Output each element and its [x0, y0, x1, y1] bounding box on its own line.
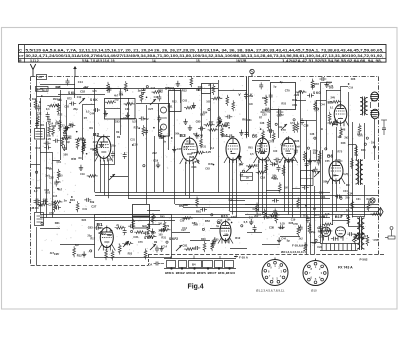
aerial input box label: [37, 88, 44, 91]
svg-text:R53: R53: [273, 163, 278, 166]
value label: [218, 117, 222, 120]
resistor: [53, 201, 56, 212]
svg-text:C81: C81: [182, 243, 187, 247]
capacitor: [225, 115, 232, 119]
svg-text:100: 100: [273, 150, 278, 153]
relay label B4 on strip: [192, 262, 196, 266]
transformer winding (primary): [357, 218, 360, 249]
svg-text:C70: C70: [138, 241, 143, 244]
value label: [259, 117, 263, 120]
wire v38: [278, 109, 280, 139]
value label: [84, 117, 88, 120]
svg-text:C38: C38: [260, 122, 265, 125]
ground symbol: [213, 237, 217, 243]
svg-text:C31: C31: [94, 154, 99, 157]
value label: [346, 183, 350, 187]
junction node: [39, 101, 41, 103]
capacitor: [84, 198, 91, 202]
svg-text:C44: C44: [191, 165, 196, 169]
wire v7: [66, 100, 68, 150]
wire h16: [296, 100, 307, 102]
svg-text:0,25: 0,25: [206, 150, 212, 154]
ground symbol: [277, 237, 281, 243]
resistor: [267, 119, 270, 130]
resistor: [262, 129, 265, 140]
capacitor: [35, 121, 39, 128]
svg-text:8,2: 8,2: [75, 243, 79, 247]
bus wire left return: [40, 214, 230, 216]
wire h5: [105, 108, 120, 110]
wire v23: [180, 88, 182, 103]
transformer winding (primary): [356, 160, 359, 184]
svg-text:R31: R31: [196, 89, 201, 92]
value label: [80, 173, 85, 176]
value label: [198, 86, 203, 89]
svg-text:3n9: 3n9: [296, 145, 301, 148]
svg-text:4k7: 4k7: [364, 235, 369, 238]
wire v20: [163, 136, 165, 192]
tube B7 (rectifier): [321, 227, 330, 240]
resistor: [347, 215, 350, 226]
svg-text:R53: R53: [46, 191, 51, 194]
value label: [172, 100, 177, 103]
value label: [46, 166, 51, 170]
value label: [82, 219, 87, 222]
svg-text:50k: 50k: [323, 179, 328, 183]
resistor: [203, 241, 206, 252]
bus wire AVC rail c: [128, 198, 330, 200]
resistor: [366, 235, 369, 246]
terminal strip rail top: [164, 258, 236, 260]
svg-text:C38: C38: [269, 226, 274, 230]
transformer winding (primary): [360, 98, 363, 115]
svg-text:C19: C19: [291, 218, 296, 221]
capacitor: [46, 112, 50, 119]
resistor: [184, 248, 195, 251]
svg-text:C27: C27: [48, 203, 53, 207]
svg-text:5p: 5p: [313, 160, 316, 163]
resistor: [350, 158, 353, 169]
svg-text:C52: C52: [358, 224, 363, 227]
wire h1: [58, 94, 105, 96]
wire v42: [300, 90, 302, 218]
ground symbol: [156, 162, 160, 168]
svg-text:C44: C44: [90, 112, 95, 115]
table row separator 1: [18, 52, 386, 54]
volume control box inner line: [240, 176, 252, 178]
value label: [148, 236, 153, 239]
terminal circle: [373, 146, 375, 148]
wire v29: [218, 80, 220, 192]
resistor: [232, 100, 235, 111]
switch contact arrow 6: [352, 235, 358, 241]
value label: [139, 95, 143, 99]
value label: [278, 126, 283, 129]
wire v1: [36, 140, 38, 212]
svg-text:C95: C95: [196, 120, 201, 124]
trimmer box: [202, 84, 211, 94]
wire v11: [100, 160, 102, 192]
switch label S KR: [313, 91, 321, 95]
svg-text:1n5: 1n5: [249, 103, 254, 106]
svg-text:R12: R12: [182, 88, 187, 92]
junction node: [71, 196, 73, 198]
resistor: [76, 201, 79, 212]
tube B5a: [280, 136, 298, 163]
ground symbol: [79, 165, 83, 171]
terminal circle: [131, 230, 133, 232]
value label: [37, 112, 42, 116]
resistor: [295, 91, 306, 94]
value label: [319, 192, 324, 195]
svg-text:B4: B4: [192, 262, 196, 266]
svg-text:C63: C63: [224, 239, 229, 243]
capacitor: [302, 186, 309, 190]
value label: [57, 161, 62, 164]
value label: [35, 186, 40, 190]
value label: [186, 140, 191, 143]
capacitor: [41, 199, 48, 203]
value label: [175, 133, 180, 136]
value label: [130, 139, 135, 142]
capacitor: [276, 110, 283, 114]
svg-text:C44: C44: [249, 217, 254, 220]
value label: [49, 176, 54, 180]
value label: [80, 90, 85, 94]
junction node: [231, 222, 233, 224]
switch contact arrow 0: [79, 98, 85, 104]
wire v16: [128, 98, 130, 198]
svg-text:3n9: 3n9: [158, 230, 163, 233]
capacitor: [347, 232, 354, 236]
wire v3: [40, 98, 42, 214]
resistor: [105, 101, 116, 104]
svg-text:R45: R45: [292, 98, 297, 102]
svg-text:1M: 1M: [166, 87, 169, 90]
value label: [249, 217, 254, 220]
value label: [248, 146, 253, 149]
value label: [152, 151, 157, 155]
value label: [211, 147, 215, 150]
capacitor: [307, 93, 314, 97]
svg-text:C63: C63: [205, 168, 210, 171]
svg-text:C52: C52: [80, 90, 85, 94]
ground symbol: [172, 146, 176, 152]
oscillator section box B1: [95, 215, 172, 258]
svg-text:25p: 25p: [111, 145, 116, 148]
tube socket diagram B10: [303, 259, 328, 286]
switch contact arrow 1: [109, 174, 115, 180]
wire h30: [147, 224, 160, 226]
capacitor: [159, 135, 166, 139]
wire h11: [181, 88, 202, 90]
terminal circle: [275, 123, 277, 125]
lamp group label: [281, 250, 304, 254]
svg-text:R12: R12: [235, 236, 240, 240]
wire v34: [258, 160, 260, 212]
capacitor: [143, 231, 150, 235]
svg-text:C27: C27: [91, 205, 96, 209]
wire v21: [168, 112, 170, 150]
value label: [101, 233, 106, 236]
svg-text:0,25: 0,25: [328, 85, 333, 88]
value label: [93, 141, 98, 144]
ground symbol: [195, 132, 199, 138]
svg-text:R72: R72: [67, 98, 72, 101]
svg-text:C52: C52: [123, 117, 128, 120]
capacitor: [227, 134, 234, 138]
value label: [91, 205, 96, 209]
value label: [142, 224, 147, 228]
value label: [254, 164, 259, 167]
value label: [89, 126, 93, 130]
svg-text:C19: C19: [80, 173, 85, 176]
tube B4: [224, 136, 242, 163]
capacitor CA: [154, 262, 161, 266]
svg-text:C31: C31: [82, 208, 87, 211]
svg-text:C38: C38: [304, 123, 309, 127]
wire v0: [36, 77, 38, 129]
resistor: [211, 97, 222, 100]
junction node: [321, 128, 323, 130]
resistor: [282, 165, 285, 176]
chassis boundary dashed left rail: [30, 77, 32, 266]
value label: [224, 124, 228, 128]
value label: [133, 143, 138, 146]
capacitor: [54, 206, 61, 210]
value label: [86, 111, 90, 114]
svg-text:C: C: [19, 48, 22, 53]
svg-text:C48: C48: [38, 204, 43, 208]
value label: [182, 100, 187, 103]
svg-text:30,32,4,71,24/100/13,31A/100,2: 30,32,4,71,24/100/13,31A/100,27/64/14,49…: [26, 54, 384, 58]
value label: [304, 244, 309, 247]
value label: [272, 176, 277, 179]
value label: [48, 203, 53, 207]
value label: [193, 223, 198, 227]
resistor: [105, 249, 108, 260]
svg-text:FX 743 A: FX 743 A: [338, 265, 353, 269]
value label: [201, 145, 206, 148]
svg-text:8,2: 8,2: [34, 190, 38, 193]
resistor: [132, 219, 135, 230]
svg-text:1n5: 1n5: [319, 216, 324, 219]
value label: [273, 150, 278, 153]
svg-text:0,1: 0,1: [216, 122, 220, 125]
capacitor: [93, 108, 100, 112]
capacitor: [157, 94, 161, 101]
pilot lamp circle: [370, 198, 375, 203]
value label: [325, 212, 330, 216]
value label: [180, 220, 185, 223]
svg-text:R17: R17: [209, 121, 214, 124]
ground symbol: [324, 82, 328, 88]
wire h12: [211, 83, 219, 85]
value label: [229, 199, 233, 202]
resistor: [58, 120, 61, 131]
capacitor: [200, 208, 207, 212]
resistor: [142, 125, 145, 136]
wire v33: [246, 77, 248, 139]
ground symbol: [188, 125, 192, 131]
ground symbol: [183, 119, 187, 125]
svg-text:C55: C55: [325, 160, 330, 163]
value label: [58, 99, 63, 102]
tube B2 label: [93, 132, 99, 138]
ground symbol: [62, 145, 66, 151]
switch unit box upper: [133, 205, 150, 217]
value label: [290, 122, 294, 125]
value label: [344, 137, 349, 140]
value label: [304, 123, 309, 127]
value label: [262, 108, 267, 112]
capacitor: [274, 158, 281, 162]
dial lamp symbol: [378, 208, 383, 217]
value label: [181, 229, 186, 232]
value label: [125, 108, 130, 111]
value label: [296, 145, 301, 148]
value label: [281, 238, 286, 241]
svg-text:50k: 50k: [90, 200, 95, 204]
resistor: [57, 169, 60, 180]
value label: [272, 175, 277, 178]
value label: [133, 236, 138, 239]
aerial series box KA label: [39, 76, 43, 79]
value label: [58, 188, 63, 192]
svg-text:C44: C44: [343, 190, 348, 193]
svg-text:R12: R12: [186, 140, 191, 143]
ground symbol: [237, 154, 241, 160]
svg-text:B8: B8: [328, 101, 332, 105]
svg-text:5,5A. 7,8,43,5,13,6, 19,: 5,5A. 7,8,43,5,13,6, 19,: [82, 59, 115, 63]
terminal circle: [325, 227, 327, 229]
resistor: [269, 214, 280, 217]
svg-text:C19: C19: [77, 96, 82, 99]
value label: [292, 98, 297, 102]
value label: [285, 88, 290, 92]
svg-text:2k2: 2k2: [254, 215, 259, 218]
svg-text:R45: R45: [160, 215, 165, 218]
transformer core: [359, 217, 361, 250]
switch contact tick 2: [250, 92, 253, 97]
value label: [196, 210, 201, 214]
svg-text:R24: R24: [82, 219, 87, 222]
value label: [317, 246, 322, 249]
resistor: [159, 126, 162, 137]
svg-text:R28: R28: [351, 78, 356, 81]
svg-text:14,: 14,: [152, 59, 157, 63]
switch unit box lower: [133, 217, 150, 229]
component index table frame: [19, 45, 387, 63]
value label: [77, 254, 82, 258]
junction node: [86, 153, 88, 155]
capacitor: [44, 146, 51, 150]
resistor: [190, 76, 193, 87]
wire v4: [46, 122, 48, 218]
wire h6: [82, 104, 95, 106]
tube B2: [95, 135, 113, 162]
value label: [58, 174, 63, 177]
value label: [44, 189, 49, 192]
value label: [343, 190, 348, 193]
svg-text:50k: 50k: [193, 133, 198, 136]
value label: [314, 82, 319, 86]
tube B1 label: [97, 222, 103, 228]
value label: [293, 223, 298, 226]
bus wire heater rail b: [245, 214, 379, 216]
capacitor: [34, 201, 41, 205]
value label: [358, 224, 363, 227]
svg-text:C81: C81: [57, 161, 62, 164]
value label: [168, 104, 173, 108]
svg-text:C14: C14: [78, 80, 83, 84]
value label: [94, 154, 99, 157]
phono input terminal on top rail: [250, 69, 254, 76]
svg-text:C48: C48: [198, 134, 203, 138]
wire v13: [108, 160, 110, 198]
tube socket diagram B1-B9,B11: [262, 258, 288, 286]
svg-text:R17: R17: [91, 237, 96, 240]
aerial input box S KAB: [36, 87, 49, 92]
resistor: [152, 213, 155, 224]
value label: [337, 135, 341, 139]
svg-text:5p: 5p: [287, 239, 290, 243]
value label: [58, 114, 63, 117]
terminal block 6: [225, 261, 234, 268]
value label: [83, 87, 88, 90]
tube B7 label: [323, 214, 329, 219]
value label: [36, 147, 41, 150]
junction node: [281, 153, 283, 155]
value label: [151, 87, 156, 90]
wire v27: [201, 94, 203, 139]
svg-text:R7: R7: [240, 173, 244, 177]
value label: [217, 218, 222, 222]
socket diagram label list: [256, 289, 285, 293]
value label: [67, 98, 72, 101]
value label: [161, 237, 166, 240]
capacitor: [259, 82, 263, 89]
svg-text:2n: 2n: [64, 199, 67, 203]
resistor: [330, 100, 341, 103]
svg-text:C44: C44: [281, 238, 286, 241]
terminal circle: [110, 230, 112, 232]
resistor: [82, 143, 85, 154]
tube B1 (oscillator): [98, 226, 115, 251]
junction node: [171, 137, 173, 139]
value label: [329, 86, 334, 90]
svg-text:C48: C48: [43, 199, 48, 202]
value label: [66, 141, 69, 144]
wire h44: [172, 232, 190, 234]
switch wafer contacts S KF2: [176, 245, 182, 251]
wire v54: [356, 145, 358, 160]
value label: [158, 230, 163, 233]
value label: [262, 114, 267, 117]
switch label S KL: [68, 91, 75, 95]
svg-text:C52: C52: [281, 143, 286, 147]
resistor: [367, 201, 370, 212]
value label: [247, 119, 252, 122]
svg-text:3n9: 3n9: [142, 224, 147, 228]
terminal circle: [146, 86, 148, 88]
transformer winding (secondary): [365, 98, 368, 115]
value label: [116, 131, 120, 134]
junction node: [341, 215, 343, 217]
chassis boundary dashed bottom rail left: [31, 265, 148, 267]
svg-text:1M: 1M: [66, 141, 69, 144]
wire v58: [374, 119, 376, 161]
